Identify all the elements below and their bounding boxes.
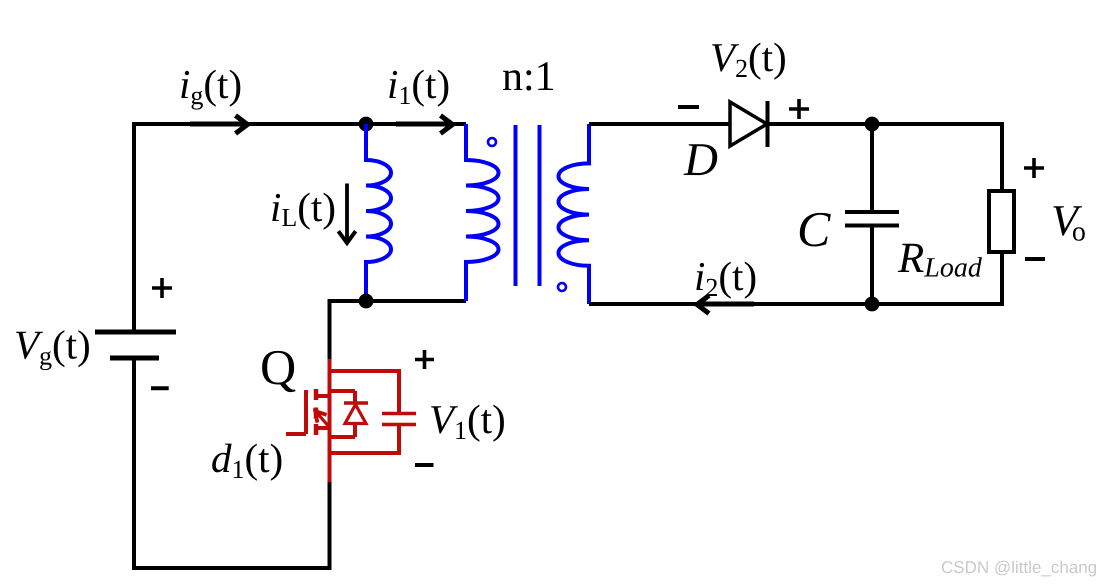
wire secondary bottom rail (589, 252, 1002, 304)
label V2(t) (712, 43, 785, 80)
snubber capacitor V1 red (382, 369, 416, 455)
red loop top horizontal (328, 369, 400, 373)
minus battery (151, 386, 169, 390)
label Vg(t) (16, 330, 89, 370)
label n:1 (503, 62, 553, 90)
wire secondary top rail right of diode (769, 124, 1002, 191)
minus left of diode (678, 105, 699, 109)
plus right of diode (789, 99, 809, 119)
plus battery (152, 278, 172, 298)
node junction inductor top (359, 117, 374, 132)
label ig(t) (181, 70, 240, 110)
node junction capacitor bottom (865, 297, 880, 312)
wire left vertical (battery to bottom) (134, 358, 330, 568)
MOSFET Q drain connection (314, 394, 331, 398)
plus V1 (415, 350, 434, 369)
label i2(t) (696, 262, 755, 299)
node junction inductor bottom (359, 294, 374, 309)
watermark (942, 561, 1096, 577)
MOSFET Q channel dashes (314, 389, 319, 435)
transformer phase dot primary (488, 138, 496, 146)
transformer T1 primary winding (466, 124, 499, 301)
body diode cathode lead (353, 424, 357, 438)
arrow iL down (338, 184, 355, 244)
body diode cathode bar (344, 401, 368, 405)
inductor L blue (366, 124, 391, 301)
transformer T1 secondary winding (558, 124, 589, 304)
MOSFET Q red main vertical (328, 359, 332, 482)
battery source Vg plate short (110, 356, 159, 361)
minus output (1025, 257, 1045, 261)
label Vo (1053, 206, 1085, 241)
minus V1 (415, 463, 434, 467)
MOSFET Q gate lead (286, 432, 306, 436)
MOSFET Q body arrow (315, 411, 330, 428)
battery source Vg plate long (95, 330, 176, 335)
MOSFET Q source connection (314, 426, 331, 430)
wire top-left rail (134, 124, 466, 332)
wire primary bottom rail (330, 301, 467, 359)
diode D triangle (730, 102, 767, 146)
transformer phase dot secondary (558, 283, 566, 291)
body diode anode lead (353, 391, 357, 403)
plus output (1024, 158, 1044, 178)
diode D cathode bar (766, 101, 770, 147)
label iL(t) (272, 193, 334, 230)
arrow ig (190, 116, 248, 134)
MOSFET Q gate bar (304, 390, 308, 434)
label i1(t) (389, 70, 448, 107)
label C (800, 213, 831, 247)
body diode top horizontal (328, 389, 356, 393)
node junction capacitor top (865, 117, 880, 132)
label RLoad (898, 244, 982, 277)
resistor RLoad (989, 191, 1014, 252)
red loop bottom horizontal (328, 451, 400, 455)
body diode bottom horizontal (328, 435, 356, 439)
label d1(t) (212, 444, 281, 481)
transformer core (516, 125, 540, 286)
wire secondary top rail left of diode (589, 122, 730, 126)
label Q (262, 351, 295, 392)
capacitor C (845, 124, 899, 304)
body diode triangle (345, 405, 366, 424)
arrow i2 (697, 296, 754, 314)
label V1(t) (431, 405, 504, 442)
label D (684, 144, 718, 175)
arrow i1 (396, 116, 453, 134)
